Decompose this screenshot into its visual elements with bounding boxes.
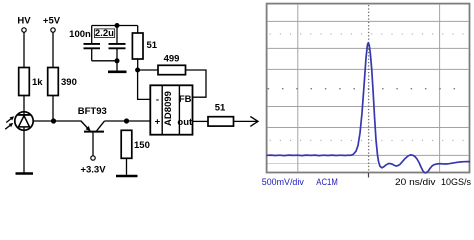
wire +5V to R 390 <box>52 32 54 67</box>
svg-text:100n: 100n <box>69 29 91 40</box>
scope dotted row center <box>268 88 455 89</box>
wire cap top rail <box>92 25 138 27</box>
node +5V terminal <box>43 16 61 33</box>
faint ghost line <box>268 162 378 164</box>
ground (150) <box>116 175 138 178</box>
svg-text:10GS/s: 10GS/s <box>441 177 471 187</box>
svg-text:HV: HV <box>17 16 31 27</box>
svg-text:+5V: +5V <box>43 16 61 27</box>
wire cap bottom rail <box>92 60 117 62</box>
svg-text:out: out <box>177 117 193 128</box>
svg-text:150: 150 <box>134 140 150 151</box>
wire 150 to ground <box>126 158 128 175</box>
ground (caps) <box>108 71 127 74</box>
wire to ground (caps) <box>116 61 118 71</box>
wire node E row <box>33 120 81 122</box>
scope gridlines horizontal <box>267 21 469 155</box>
ground (photodiode) <box>16 172 34 175</box>
scope trace <box>267 43 469 173</box>
scope dotted row upper <box>270 34 464 35</box>
svg-text:AC1M: AC1M <box>316 177 338 187</box>
svg-text:-: - <box>156 95 159 106</box>
svg-text:FB: FB <box>179 94 192 105</box>
resistor 51 (output) <box>208 103 234 127</box>
junction cap bottom <box>115 58 120 63</box>
junction node E <box>51 118 56 123</box>
svg-text:499: 499 <box>164 54 180 65</box>
wire 499 to FB pin <box>186 70 207 97</box>
svg-text:1k: 1k <box>32 77 43 88</box>
svg-text:51: 51 <box>215 103 226 114</box>
wire collector to op-amp <box>105 120 151 122</box>
light arrow 1 <box>6 116 14 122</box>
junction node F <box>135 68 140 73</box>
scope center tick column <box>368 5 369 170</box>
wire R51 to node F <box>137 59 139 70</box>
svg-text:BFT93: BFT93 <box>78 106 107 117</box>
wire R51 to output arrow <box>234 120 258 122</box>
svg-text:51: 51 <box>147 40 158 51</box>
junction node C <box>124 118 129 123</box>
svg-text:500mV/div: 500mV/div <box>262 177 304 187</box>
wire photodiode to ground <box>23 130 25 172</box>
svg-text:390: 390 <box>61 77 77 88</box>
resistor 150 <box>121 130 150 158</box>
scope screen border <box>267 4 470 173</box>
junction cap top <box>115 23 120 28</box>
wire 1k to photodiode <box>23 96 25 113</box>
wire node F to minus input <box>138 70 151 99</box>
op-amp U1 AD8099 <box>150 85 193 134</box>
wire rail to R51 top <box>137 26 139 34</box>
photodiode D1 <box>15 112 33 131</box>
wire 390 to node E <box>52 96 54 122</box>
wire HV to R 1k <box>23 32 25 67</box>
resistor 390 <box>48 68 77 96</box>
trigger position marker <box>368 173 370 178</box>
svg-text:20 ns/div: 20 ns/div <box>395 177 436 187</box>
svg-text:+3.3V: +3.3V <box>80 165 106 176</box>
resistor 1k <box>19 68 44 96</box>
transistor Q1 BFT93 <box>78 106 107 132</box>
svg-text:+: + <box>155 117 161 128</box>
scope gridlines vertical <box>298 4 440 171</box>
light arrow 2 <box>5 123 13 129</box>
resistor 51 (vertical) <box>132 33 157 59</box>
node HV terminal <box>17 16 31 33</box>
wire base to +3.3V <box>92 133 94 156</box>
capacitor C1 100n <box>69 26 100 61</box>
output arrow <box>250 116 258 126</box>
wire node F to 499 <box>138 69 158 71</box>
wire out pin to R51 out <box>193 120 209 122</box>
capacitor C2 2.2u <box>94 26 125 61</box>
resistor 499 <box>158 54 186 75</box>
svg-text:AD8099: AD8099 <box>163 91 174 126</box>
scope dotted row lower <box>270 140 464 141</box>
svg-text:2.2u: 2.2u <box>95 28 114 39</box>
node +3.3V terminal <box>80 156 106 176</box>
